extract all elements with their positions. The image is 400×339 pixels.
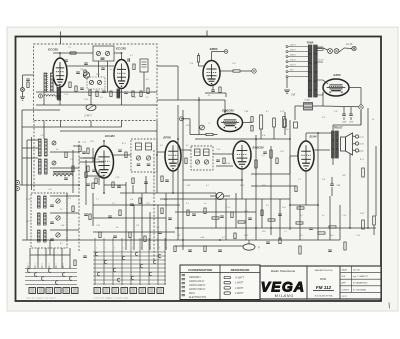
wire left drop 1 — [29, 248, 31, 268]
resistor R10 — [70, 52, 76, 54]
capacitor C19 — [192, 213, 196, 215]
capacitor C34 — [84, 213, 88, 215]
speaker terminal 3 — [355, 149, 358, 152]
capacitor C10 — [330, 183, 334, 185]
wire coil bus 1 — [22, 147, 38, 149]
svg-text:CONDENSATORI: CONDENSATORI — [188, 268, 212, 272]
svg-text:1: 1 — [28, 264, 29, 266]
TMF1 coil B — [146, 143, 152, 150]
capacitor C23 — [168, 217, 172, 219]
title FM112 underline — [313, 290, 334, 292]
capacitor C7 antenna — [26, 78, 30, 80]
wire out stage v1 — [317, 133, 319, 240]
capacitor C32 — [328, 249, 332, 251]
tube V7 ECH81 — [95, 146, 114, 178]
wire h 165 — [216, 165, 233, 167]
title right divider — [351, 266, 353, 293]
wire mid col 3 — [85, 160, 87, 205]
wire choke left — [295, 105, 304, 107]
svg-text:C 1: C 1 — [298, 179, 301, 181]
wire bus C — [182, 110, 184, 250]
resistor R47 — [161, 208, 163, 214]
legend header underline — [180, 272, 260, 274]
oscillator coils dashed box — [31, 193, 67, 248]
resistor R60 — [344, 242, 346, 250]
band switch shaft S3 (dashed) — [33, 121, 35, 194]
resistor R69 — [112, 182, 114, 188]
resistor R46 — [295, 186, 297, 192]
capacitor C1 — [80, 87, 84, 89]
wire EZ80 plate2 — [322, 92, 324, 95]
resistor R53 — [129, 232, 131, 238]
coil L4 in sub-box — [101, 57, 105, 59]
resistor R9 — [147, 88, 149, 94]
wire v 158b — [157, 205, 159, 250]
wire V1 cathode — [59, 87, 61, 105]
trimmer CT8 — [56, 199, 60, 203]
title divider 1 — [306, 266, 308, 299]
RF coil T4 bar2 — [45, 159, 48, 174]
capacitor C39 — [86, 183, 90, 185]
svg-text:C 31: C 31 — [356, 235, 360, 237]
wire mid col 1 — [66, 193, 68, 240]
wire v 142 — [141, 193, 143, 250]
resistor R49 — [119, 210, 121, 216]
wire ml 9 — [145, 176, 147, 193]
capacitor C41 — [144, 181, 148, 183]
wire h 120 right — [360, 110, 362, 125]
svg-text:EZ80: EZ80 — [334, 73, 341, 77]
wire h 131 — [60, 130, 157, 132]
svg-text:A.L.B.: A.L.B. — [345, 43, 353, 46]
wire plug — [344, 47, 352, 50]
resistor R18 — [251, 126, 253, 132]
wire ml 3 — [86, 175, 104, 177]
wire EL84 screen — [314, 149, 318, 151]
svg-text:/ Tud. vert. magg.t. c / i.c.v: / Tud. vert. magg.t. c / i.c.vat. scazz. — [93, 297, 129, 300]
svg-text:DIS.: DIS. — [342, 276, 346, 278]
right switch matrix grid — [93, 251, 166, 253]
wire TMF2 to V9 — [213, 153, 233, 155]
resistor R50 — [89, 214, 91, 220]
wire mains down — [286, 78, 288, 89]
wire v 262 — [261, 199, 263, 228]
svg-text:ECC85: ECC85 — [116, 47, 126, 51]
TMF2 coil A — [195, 149, 201, 156]
svg-text:3 WATT: 3 WATT — [235, 292, 244, 295]
left matrix switch contacts — [27, 269, 30, 273]
wire TMF1 to EF89 — [157, 151, 165, 153]
wire EL84 grid run — [289, 156, 291, 174]
schematic border frame — [16, 37, 382, 302]
resistor R48 — [139, 198, 141, 204]
resistor R20 — [283, 117, 286, 128]
transformer bottom tap — [288, 76, 309, 78]
svg-text:EF89: EF89 — [163, 136, 171, 140]
wire fm out2 — [150, 104, 157, 106]
wire EM80 bottom — [212, 84, 214, 90]
capacitor C36 — [101, 67, 105, 69]
wire h 150 right — [318, 149, 330, 151]
resistor R40 — [204, 208, 206, 214]
wire EM80 left — [198, 53, 200, 56]
resistor R15 — [219, 87, 221, 93]
wire antenna feed — [22, 75, 24, 88]
resistor R30 — [87, 148, 89, 154]
tube V5 EZ80 — [323, 79, 349, 96]
capacitor C27 — [113, 235, 117, 237]
electrolytic C69 — [349, 113, 353, 115]
wire V2 top link — [114, 52, 122, 54]
wire out stage v2 — [349, 153, 351, 228]
wire V2 cathode — [121, 89, 123, 106]
tube V2 ECC85 — [114, 60, 129, 89]
resistor R26 — [329, 226, 336, 228]
wire het bus — [290, 204, 318, 206]
wire AP bus — [20, 184, 80, 186]
transformer primary tap 160 V. — [288, 51, 309, 53]
transformer primary tap 125 V. — [288, 61, 309, 63]
svg-text:C 31: C 31 — [132, 97, 136, 99]
wire R19 down — [273, 127, 275, 139]
wire top fm feed — [157, 65, 178, 67]
svg-text:C 1: C 1 — [250, 127, 253, 129]
wire coil bus 2 — [50, 151, 79, 153]
transformer T1 secondary bar — [314, 45, 318, 97]
capacitor C15 — [263, 151, 267, 153]
IF can coil marks — [142, 61, 147, 63]
transformer primary tap 110 V. — [288, 66, 309, 68]
resistor R12 antenna — [27, 82, 29, 88]
resistor R68 — [95, 178, 97, 184]
svg-text:220 V.: 220 V. — [289, 45, 297, 47]
capacitor C21 — [248, 217, 252, 219]
mains plug terminal — [352, 46, 356, 50]
trimmer CT5 — [200, 125, 205, 130]
trimmer CT2 — [105, 51, 109, 55]
svg-text:7: 7 — [70, 264, 71, 266]
svg-text:160 V.: 160 V. — [290, 50, 297, 52]
capacitor C8 — [211, 89, 215, 91]
resistor R35 — [223, 158, 225, 164]
tube V1 ECC85 — [53, 58, 67, 87]
svg-text:Ing. L. PASETTI: Ing. L. PASETTI — [353, 275, 368, 278]
legend table frame — [180, 265, 260, 300]
terminal T1 — [252, 69, 256, 73]
capacitor C25 — [108, 215, 112, 217]
resistor R16 — [206, 133, 213, 135]
wire C10 — [331, 177, 333, 184]
svg-text:CARTA 160 Vℓ: CARTA 160 Vℓ — [189, 280, 204, 283]
resistor R2 — [75, 86, 77, 92]
coil L5 zigzag — [44, 95, 55, 96]
resistor R64 — [72, 206, 74, 212]
wire EM80 top — [211, 52, 213, 61]
wire bus B — [177, 105, 179, 240]
resistor R23 — [297, 207, 304, 209]
svg-text:1: 1 — [96, 248, 97, 250]
wire lamps — [323, 48, 328, 50]
filter choke D6A — [304, 103, 313, 111]
wire bus G — [289, 120, 291, 230]
right matrix terminal blocks — [94, 288, 101, 294]
coil under V1 — [58, 88, 61, 100]
capacitor C26 — [83, 255, 87, 257]
svg-text:A. FARASSINO: A. FARASSINO — [352, 282, 368, 285]
wire v 150 — [149, 212, 151, 250]
TMF1 trimmer B — [146, 156, 150, 160]
wire det out bus — [195, 138, 290, 140]
svg-text:CARTA 1000 Vℓ: CARTA 1000 Vℓ — [189, 284, 206, 287]
svg-text:5: 5 — [132, 248, 133, 250]
wire pot — [210, 195, 216, 197]
wire v 226 — [225, 199, 227, 240]
resistor R55 — [174, 246, 176, 252]
svg-text:0,1: 0,1 — [186, 203, 189, 205]
wire fm drop 1 — [43, 121, 45, 140]
wire fm drop 3 — [90, 121, 92, 128]
svg-text:2: 2 — [105, 248, 106, 250]
resistor R3 — [89, 90, 91, 96]
svg-text:ECC85: ECC85 — [48, 48, 58, 52]
svg-text:EM80: EM80 — [210, 47, 218, 51]
IF transformer TMF2 box — [191, 146, 213, 170]
wire left drop 5 — [61, 248, 63, 268]
resistor R44 — [261, 210, 263, 216]
wire left col b — [31, 137, 33, 190]
capacitor C35 — [76, 71, 80, 73]
wire v 246b — [245, 199, 247, 240]
capacitor C17 — [50, 221, 54, 223]
wire h 212 — [175, 211, 256, 213]
wire EZ80 cathode — [349, 87, 361, 89]
wire coil bus 7 — [50, 229, 79, 231]
resistor R21 — [284, 119, 287, 127]
wire mid conn 1 — [79, 157, 95, 159]
svg-text:2: 2 — [35, 264, 36, 266]
wire ECH81 out — [114, 154, 132, 156]
wire coil bus 3 — [50, 167, 79, 169]
svg-text:C 31: C 31 — [96, 225, 100, 227]
wire FM grid — [67, 65, 114, 67]
capacitor C37 — [82, 151, 86, 153]
svg-text:RESISTENZE: RESISTENZE — [231, 268, 251, 272]
wire left drop 3 — [45, 248, 47, 268]
fuse F1 — [317, 47, 323, 50]
wire ml 7 — [125, 182, 127, 193]
svg-text:C 31: C 31 — [40, 135, 44, 137]
legend resistor rows — [224, 276, 231, 278]
resistor R5 — [110, 91, 112, 97]
resistor R37 — [270, 150, 272, 158]
svg-text:1 M: 1 M — [48, 189, 52, 191]
svg-text:1 WATT: 1 WATT — [235, 282, 244, 285]
capacitor C14 — [216, 159, 220, 161]
svg-text:125 V.: 125 V. — [290, 60, 297, 62]
tone pot P2 — [243, 244, 255, 250]
ferrite core line L6 — [53, 171, 73, 173]
wire h 180 — [183, 179, 242, 181]
capacitor C18 — [50, 238, 54, 240]
wire v 280 — [279, 199, 281, 240]
resistor R57 — [234, 233, 236, 239]
resistor R62 — [72, 166, 74, 172]
svg-text:ELETTROLITICI: ELETTROLITICI — [189, 297, 206, 299]
wire OT bottom — [332, 158, 334, 165]
wire mid bus — [120, 192, 216, 194]
capacitor C38 — [92, 169, 96, 171]
wire choke right — [313, 105, 323, 107]
svg-text:CONTR.: CONTR. — [342, 289, 350, 291]
antenna input coil L1 — [44, 73, 47, 92]
wire mid col 2 — [72, 150, 74, 193]
title block frame — [260, 266, 381, 299]
wire ml 4 — [92, 148, 94, 162]
speaker terminal 1 — [355, 135, 358, 138]
wire h 127 — [22, 126, 122, 128]
svg-text:3: 3 — [42, 264, 43, 266]
trimmer CT1 — [96, 51, 100, 55]
TMF2 coil B — [204, 149, 210, 156]
wire V2 top — [121, 53, 123, 60]
capacitor C40 — [117, 185, 121, 187]
AP terminal 2 — [16, 187, 20, 191]
FM osc coil L3 — [57, 85, 60, 99]
wire EABC output — [241, 180, 243, 199]
wire antenna ground — [22, 92, 24, 98]
wire v 236 — [235, 193, 237, 228]
wire EL84 cathode — [305, 171, 307, 205]
wire h 174 — [251, 173, 290, 175]
transformer secondary 6.3V tap — [317, 61, 323, 63]
wire bus F — [270, 146, 272, 235]
svg-text:R.T.: R.T. — [290, 70, 294, 72]
svg-text:C 1: C 1 — [68, 47, 71, 49]
wire v 300 — [299, 205, 301, 240]
wire FM bus mid — [36, 91, 150, 93]
capacitor C33 — [64, 177, 68, 179]
wire ml 2 — [79, 161, 104, 163]
resistor R6 — [117, 92, 119, 98]
RF coil T3 bar2 — [45, 139, 48, 156]
registration tick above frame — [60, 32, 62, 45]
resistor R58 — [279, 238, 281, 244]
wire V4 left — [189, 119, 191, 135]
resistor R34 — [185, 158, 187, 164]
resistor R43 — [238, 221, 245, 223]
antenna terminal X1 — [21, 88, 25, 92]
wire v 166 — [165, 193, 167, 250]
resistor R7 — [132, 91, 134, 97]
wire left matrix bus — [30, 254, 70, 256]
wire v 323 — [322, 95, 324, 106]
resistor R36 — [255, 160, 257, 168]
FM tuner dashed enclosure — [34, 44, 158, 121]
capacitor C4 — [64, 59, 68, 61]
terminal B+ — [359, 105, 363, 109]
wire v 126 — [125, 193, 127, 250]
svg-text:5: 5 — [56, 264, 57, 266]
wire h 232 — [93, 231, 175, 233]
right edge IF can — [140, 59, 148, 72]
capacitor C11 — [309, 227, 313, 229]
wire EF89 out — [181, 149, 191, 151]
svg-text:TRS/17: TRS/17 — [333, 126, 343, 130]
svg-text:SCUOLA ELETTRA: SCUOLA ELETTRA — [315, 295, 333, 298]
wire ECH81 grid — [83, 157, 95, 159]
svg-text:140 V.: 140 V. — [290, 54, 297, 57]
wire EL84 grid — [290, 155, 298, 157]
svg-text:8: 8 — [159, 248, 160, 250]
resistor R67 — [87, 166, 89, 172]
capacitor C16 — [50, 204, 54, 206]
wire EM80 lower — [205, 92, 226, 94]
svg-text:3: 3 — [114, 248, 115, 250]
svg-text:0,1: 0,1 — [160, 145, 163, 147]
resistor R1 — [69, 82, 71, 88]
RF coil T4 bar1 — [39, 159, 42, 174]
resistor R8 — [140, 91, 142, 97]
loop antenna coil L6 — [53, 174, 73, 176]
title divider 2 — [339, 266, 341, 299]
capacitor C24 — [130, 203, 134, 205]
wire v 134 — [133, 205, 135, 250]
wire bus mid2 — [92, 193, 94, 226]
osc coil T6 bar2 — [44, 213, 47, 225]
svg-text:EABC80: EABC80 — [252, 146, 263, 150]
wire V1 anode — [59, 53, 61, 58]
resistor R66 — [79, 146, 81, 152]
capacitor C30 — [218, 249, 222, 251]
resistor R39 — [187, 210, 189, 216]
trimmer CT7 — [52, 161, 56, 165]
arrow into V4 — [224, 100, 226, 113]
ground symbol mains — [284, 89, 290, 91]
svg-text:110 V.: 110 V. — [290, 65, 296, 67]
resistor R24 — [296, 222, 303, 224]
trimmer CT4 — [97, 80, 101, 84]
wire fm drop 2 — [60, 121, 62, 128]
output transformer T2 bar2 — [336, 131, 339, 158]
svg-text:M I L A N O: M I L A N O — [275, 294, 294, 298]
osc coil T6 bar1 — [38, 213, 41, 225]
pilot lamp LP1 — [328, 49, 333, 54]
wire EF89 cath — [172, 171, 174, 193]
svg-text:4: 4 — [49, 264, 50, 266]
grid-cap terminal EM80 — [224, 50, 228, 54]
wire to terminal — [240, 70, 252, 72]
wire subbox down2 — [107, 61, 109, 92]
resistor R17 — [251, 117, 253, 123]
resistor R45 — [268, 219, 275, 221]
terminal T2 — [180, 117, 184, 121]
legend capacitor symbols — [182, 274, 186, 276]
band switch shaft S2 (dashed) — [153, 150, 155, 262]
wire ml 6 — [104, 184, 126, 186]
antenna input coil L2 — [51, 73, 54, 92]
resistor R59 — [299, 246, 301, 254]
wire left HT — [284, 112, 286, 119]
wire ml 1 — [73, 145, 80, 147]
wire long bottom bus — [175, 227, 376, 229]
trimmer CT9 — [56, 216, 60, 220]
speaker terminal 2 — [355, 142, 358, 145]
wire v 216 — [215, 193, 217, 228]
wire jack to box — [55, 95, 60, 97]
resistor R22 — [294, 122, 298, 128]
resistor R25 — [318, 232, 325, 234]
left matrix terminal blocks — [29, 288, 36, 294]
